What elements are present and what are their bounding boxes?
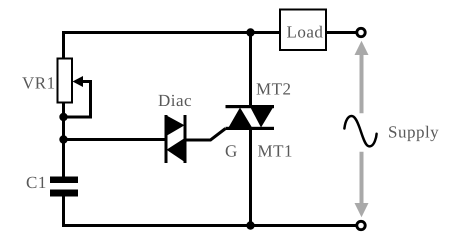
capacitor C1 bottom plate	[50, 190, 78, 197]
supply arrow down	[355, 152, 369, 218]
svg-text:G: G	[225, 142, 238, 161]
wire top rail left	[64, 33, 281, 59]
supply arrow up	[355, 41, 369, 114]
junction node diac branch	[59, 135, 67, 143]
junction node wiper	[59, 113, 67, 121]
triac right triangle	[251, 108, 274, 128]
triac bottom bar	[226, 127, 275, 130]
triac top bar	[226, 105, 275, 108]
diac lower triangle	[167, 139, 185, 162]
svg-text:Diac: Diac	[158, 91, 192, 110]
svg-text:Load: Load	[287, 23, 324, 42]
triac left triangle	[229, 108, 253, 128]
load box	[280, 10, 326, 51]
wire VR1 bottom to C1	[62, 102, 65, 177]
junction node bottom rail	[246, 221, 254, 229]
svg-text:C1: C1	[26, 173, 47, 192]
sine wave symbol	[344, 116, 376, 146]
diac upper triangle	[167, 116, 185, 136]
potentiometer VR1 body	[58, 59, 73, 103]
wire node to diac	[64, 138, 165, 141]
wire triac MT1 vertical	[249, 129, 252, 226]
diac left bar	[165, 115, 168, 163]
potentiometer VR1 wiper arrow	[73, 76, 84, 87]
wire diac to triac gate	[186, 129, 226, 141]
capacitor C1 top plate	[50, 177, 78, 184]
wire load to top terminal	[326, 31, 356, 34]
junction node top rail	[246, 28, 254, 36]
terminal top	[357, 28, 365, 36]
svg-text:VR1: VR1	[22, 74, 56, 93]
svg-text:MT2: MT2	[256, 80, 292, 99]
wire triac MT2 vertical	[249, 33, 252, 106]
svg-text:Supply: Supply	[388, 123, 439, 142]
wire bottom rail	[64, 196, 358, 226]
terminal bottom	[357, 221, 365, 229]
svg-text:MT1: MT1	[258, 142, 294, 161]
diac right bar	[184, 115, 187, 163]
wire VR1 wiper to lower terminal	[66, 82, 91, 118]
